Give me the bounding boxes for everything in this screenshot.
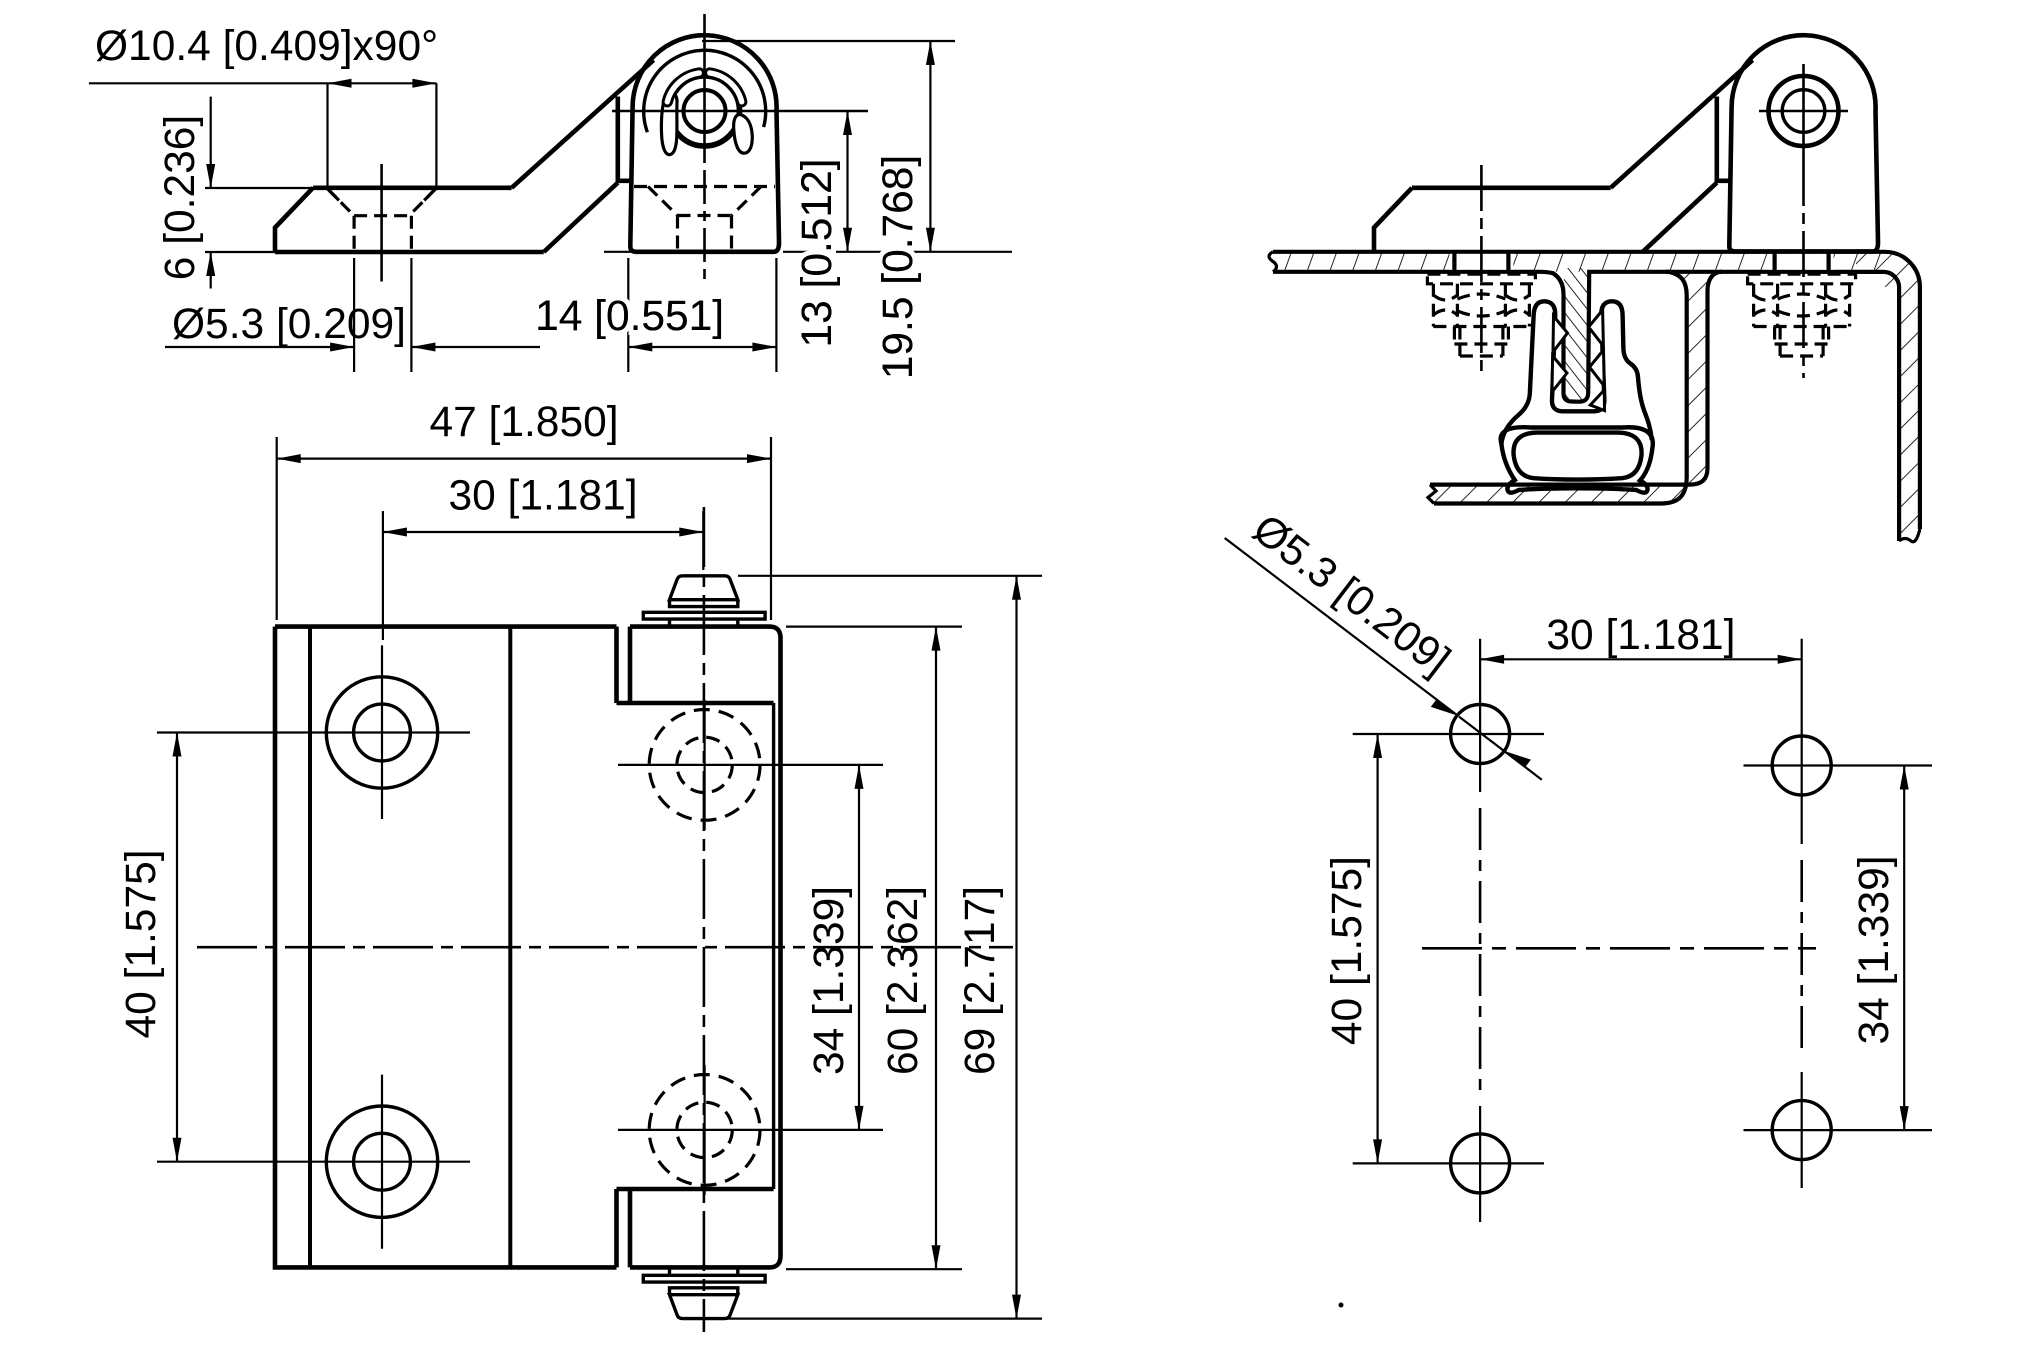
pattern hole bottom-left crosshair	[1353, 1106, 1544, 1222]
dimension Ø5.3 line	[165, 346, 540, 348]
pattern hole top-left	[1451, 705, 1510, 764]
top pin cap	[670, 576, 738, 607]
svg-text:14 [0.551]: 14 [0.551]	[535, 293, 724, 340]
dimension 30 pattern line	[1480, 658, 1802, 660]
dimension 47 line	[277, 458, 771, 460]
pattern hole bottom-right	[1772, 1101, 1831, 1160]
dimension 30 extensions	[383, 511, 703, 640]
left bolt hidden thread end	[1454, 327, 1508, 357]
dimension 47 extensions	[277, 437, 771, 620]
leaf bolt centerline	[1480, 165, 1483, 378]
frame panel left break	[1269, 252, 1277, 272]
upper left hole outer circle	[326, 677, 437, 788]
hinge leaf (installation) top edge	[1412, 186, 1611, 191]
lower right hole crosshair	[618, 1065, 883, 1195]
svg-text:19.5 [0.768]: 19.5 [0.768]	[875, 155, 922, 380]
right leaf upper step	[617, 701, 774, 706]
front view horizontal centerline	[197, 946, 1013, 949]
lower left hole outer circle	[326, 1106, 437, 1217]
svg-text:34 [1.339]: 34 [1.339]	[806, 886, 853, 1075]
bottom pin cap	[670, 1288, 738, 1319]
pin crosshair (installation)	[1759, 64, 1848, 160]
dimension 13 arrows	[843, 111, 852, 252]
dimension 40 pattern arrows	[1373, 734, 1382, 1163]
seal carrier inner channel walls	[1552, 315, 1604, 411]
slot between leaves bottom	[617, 1189, 631, 1267]
dimension 30 pattern arrows	[1480, 655, 1802, 664]
left bolt hidden nut	[1433, 284, 1529, 327]
left leaf chamfer edge line	[308, 627, 312, 1268]
svg-text:6 [0.236]: 6 [0.236]	[157, 115, 204, 280]
knuckle outline	[630, 35, 779, 252]
bolt hole edges in band	[1454, 252, 1828, 272]
knuckle hidden hole	[678, 216, 732, 252]
dimension Ø10.4 line	[89, 82, 437, 84]
knuckle inner dome arc	[644, 50, 766, 132]
upper left hole crosshair	[157, 645, 470, 819]
dimension 60 extensions	[786, 627, 962, 1270]
dimension 19.5 arrows	[926, 41, 935, 252]
pinch flange hatched	[1563, 268, 1589, 402]
seal left leg barbs	[1552, 316, 1568, 392]
dimension 60 line	[935, 627, 937, 1270]
spring clip right lobe	[734, 115, 753, 154]
svg-text:30 [1.181]: 30 [1.181]	[1546, 612, 1735, 659]
knuckle vertical centerline	[703, 14, 706, 163]
leaf top diagonal to knuckle	[512, 60, 654, 188]
dimension 19.5 line	[929, 41, 931, 252]
stray dot	[1339, 1303, 1344, 1308]
dimension 6 extension lines	[205, 188, 315, 252]
lower right hidden hole circle	[677, 1102, 732, 1157]
dimension 19.5 extension line top	[702, 40, 955, 42]
dimension 34 line (front)	[858, 765, 860, 1130]
dimension 14 line	[628, 346, 776, 348]
dimension 14 arrows	[628, 343, 776, 352]
upper left hole inner circle	[354, 704, 411, 761]
door channel outline inner	[1430, 272, 1722, 485]
upper right hidden hole circle	[677, 737, 732, 792]
leaf hole centerline	[380, 164, 383, 282]
svg-text:47 [1.850]: 47 [1.850]	[429, 399, 618, 446]
leaf top edge	[313, 186, 512, 191]
lower left hole crosshair	[157, 1075, 470, 1249]
dimension 69 arrows	[1012, 576, 1021, 1319]
knuckle horizontal centerline / 13-dim extension	[612, 110, 868, 113]
pin inner circle	[684, 90, 726, 132]
leader Ø5.3 line	[1225, 538, 1542, 780]
svg-text:40 [1.575]: 40 [1.575]	[118, 849, 165, 1038]
pin axis centerline	[703, 507, 706, 1332]
knuckle curl seam line	[772, 703, 775, 1189]
dimension 14 extension lines	[628, 258, 776, 372]
right leaf outline	[630, 627, 781, 1268]
door skin inner edge	[1720, 272, 1899, 541]
dimension 30 line	[383, 531, 703, 533]
svg-text:Ø5.3 [0.209]: Ø5.3 [0.209]	[1244, 506, 1459, 685]
pattern horizontal centerline	[1422, 947, 1816, 950]
door channel outline outer	[1434, 272, 1687, 504]
seal right leg barbs	[1589, 310, 1605, 411]
frame panel outline top	[1273, 250, 1885, 254]
dimension Ø5.3 arrows	[330, 343, 435, 352]
frame panel outline bottom with pinch flange	[1273, 272, 1722, 402]
door skin bottom break	[1899, 529, 1920, 542]
leaf countersink chamfer solid starts	[327, 188, 437, 200]
right bolt hidden thread end	[1775, 327, 1829, 357]
dimension 69 extensions	[727, 576, 1042, 1319]
channel between leaf end and knuckle	[618, 97, 631, 181]
hinge channel	[1717, 97, 1730, 181]
hinge leaf diagonal	[1611, 60, 1753, 188]
dimension 60 arrows	[932, 627, 941, 1270]
dimension 47 arrows	[277, 454, 771, 463]
pattern vertical centerline right	[1800, 860, 1803, 1056]
hinge leaf chamfer	[1374, 188, 1412, 252]
pattern hole bottom-left	[1451, 1134, 1510, 1193]
dimension 69 line	[1015, 576, 1017, 1319]
knuckle bolt centerline	[1802, 160, 1805, 378]
upper right hidden countersink circle	[649, 710, 760, 821]
dimension 40 pattern line	[1376, 734, 1378, 1163]
leaf bottom diagonal	[544, 183, 618, 252]
dimension Ø10.4 extension lines	[328, 83, 437, 186]
pattern hole top-right	[1772, 736, 1831, 795]
left leaf bend line	[508, 627, 512, 1268]
right bolt hidden washer	[1748, 274, 1856, 284]
dimension 34 pattern line	[1903, 766, 1905, 1131]
top pin washer	[643, 612, 765, 625]
svg-text:30 [1.181]: 30 [1.181]	[448, 473, 637, 520]
svg-text:Ø5.3 [0.209]: Ø5.3 [0.209]	[172, 301, 406, 348]
svg-text:34 [1.339]: 34 [1.339]	[1851, 855, 1898, 1044]
dimension 40 arrows (front)	[173, 733, 182, 1162]
pin circle outer (installation)	[1769, 76, 1839, 146]
svg-text:69 [2.717]: 69 [2.717]	[957, 886, 1004, 1075]
pattern hole top-right crosshair	[1744, 639, 1933, 844]
leaf bottom edge	[275, 250, 544, 255]
leaf left chamfer	[275, 188, 313, 252]
dimension Ø5.3 extension lines	[354, 258, 411, 372]
frame panel hatched band	[1273, 252, 1884, 272]
svg-text:60 [2.362]: 60 [2.362]	[880, 886, 927, 1075]
pin bearing circle	[670, 76, 740, 146]
slot between leaves top	[617, 627, 631, 703]
hinge leaf bottom diagonal	[1643, 183, 1717, 252]
spring clip left lobe	[661, 93, 677, 154]
knuckle countersink hidden cone	[648, 187, 761, 216]
spring clip right crescent	[706, 69, 746, 106]
seal bulb inner	[1514, 433, 1642, 480]
door skin right bend hatched	[1856, 252, 1920, 544]
upper right hole crosshair	[618, 700, 883, 830]
pattern hole top-left crosshair	[1353, 639, 1544, 792]
dimension 30 arrows	[383, 528, 703, 537]
door skin outer edge	[1885, 252, 1920, 529]
dimension 34 pattern arrows	[1900, 766, 1909, 1131]
leader Ø5.3 arrowheads	[1431, 699, 1531, 767]
door channel flange left break	[1428, 485, 1436, 504]
spring clip left crescent	[663, 69, 703, 106]
dimension 34 arrows (front)	[855, 765, 864, 1130]
lower left hole inner circle	[354, 1133, 411, 1190]
seal bulb outer	[1501, 427, 1653, 492]
bottom pin washer	[643, 1269, 765, 1282]
dimension 6 arrows	[206, 164, 215, 276]
dimension 13 line	[846, 111, 848, 252]
svg-text:13 [0.512]: 13 [0.512]	[794, 158, 841, 347]
right bolt hidden nut	[1754, 284, 1850, 327]
lower right hidden countersink circle	[649, 1075, 760, 1186]
seal carrier outline	[1501, 301, 1651, 444]
svg-text:Ø10.4 [0.409]x90°: Ø10.4 [0.409]x90°	[95, 23, 438, 70]
door channel web and bottom flange hatched	[1428, 272, 1722, 504]
dimension 40 line (front)	[176, 733, 178, 1162]
dimension 6 lines	[210, 97, 212, 289]
pattern hole bottom-right crosshair	[1744, 1072, 1933, 1188]
leaf hidden hole	[354, 216, 411, 252]
leaf countersink hidden cone	[327, 188, 437, 216]
knuckle countersink hidden top line	[634, 185, 775, 188]
dimension Ø10.4 arrows	[328, 79, 437, 88]
dimension 13 extension line bottom	[783, 251, 1012, 253]
hinge knuckle outline (installation)	[1729, 35, 1878, 251]
pattern vertical centerline left	[1479, 808, 1482, 1090]
left leaf plate outline	[275, 627, 617, 1268]
white hole gaps in band	[1454, 254, 1828, 270]
svg-text:40 [1.575]: 40 [1.575]	[1324, 856, 1371, 1045]
pin circle inner (installation)	[1782, 90, 1825, 133]
leaf bottom extension under knuckle	[604, 251, 631, 253]
right leaf lower step	[617, 1187, 774, 1192]
left bolt hidden washer	[1427, 274, 1535, 284]
